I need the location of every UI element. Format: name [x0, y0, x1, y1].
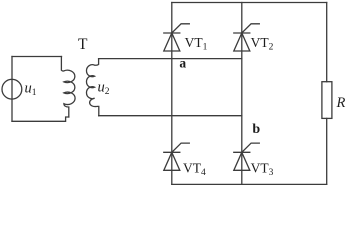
wire bridge left leg	[171, 3, 173, 185]
thyristor VT3	[234, 143, 259, 170]
svg-text:VT3: VT3	[251, 161, 274, 179]
svg-text:VT4: VT4	[183, 161, 206, 179]
resistor R	[322, 82, 332, 119]
wire bridge bottom rail	[172, 183, 327, 185]
wire left loop left side	[11, 57, 13, 122]
wire bridge right leg	[241, 3, 243, 185]
thyristor VT1	[164, 24, 190, 51]
svg-text:T: T	[78, 36, 88, 53]
transformer T primary winding	[61, 57, 75, 118]
wire left loop top	[12, 56, 62, 58]
svg-text:R: R	[336, 95, 346, 111]
thyristor VT4	[164, 143, 190, 170]
svg-text:a: a	[179, 56, 186, 71]
wire left loop bottom	[12, 117, 69, 121]
svg-text:VT1: VT1	[185, 35, 208, 53]
transformer T secondary winding	[86, 59, 98, 116]
thyristor VT2	[234, 24, 259, 51]
wire bridge top rail	[172, 2, 327, 4]
svg-text:b: b	[252, 122, 260, 137]
wire secondary top to bridge node a/b	[99, 58, 242, 60]
svg-text:VT2: VT2	[251, 35, 274, 53]
wire load branch right	[326, 3, 328, 185]
svg-text:u1: u1	[25, 81, 37, 99]
wire secondary bottom to node b	[99, 115, 242, 117]
svg-text:u2: u2	[98, 80, 110, 98]
AC source u1	[2, 79, 22, 99]
